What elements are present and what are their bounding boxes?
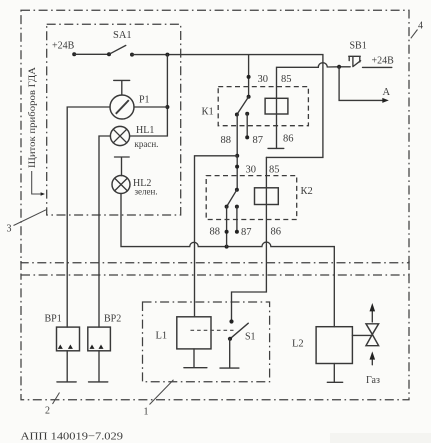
- pressure sensor BP2 label: [104, 314, 121, 325]
- enclosure frame 2 (lower dash-dot border): [21, 275, 409, 400]
- +24V label (left): [52, 41, 75, 52]
- label SB1: [350, 41, 367, 52]
- svg-text:86: 86: [283, 134, 294, 145]
- label K2: [301, 186, 313, 197]
- svg-text:ВР2: ВР2: [104, 314, 121, 325]
- pin label 87 (K1): [253, 135, 264, 146]
- L2 chassis: [327, 364, 342, 383]
- wire K2 terminal 30 feed: [236, 156, 238, 190]
- callout line for 1: [150, 380, 174, 405]
- svg-text:87: 87: [241, 227, 252, 238]
- node K2 pin 88: [225, 230, 229, 234]
- node +24V terminal: [72, 52, 76, 56]
- svg-text:красн.: красн.: [135, 139, 159, 149]
- switch S1: [228, 319, 248, 341]
- vertical caption "Щиток приборов ГДА": [27, 67, 38, 168]
- wire branch SA1 down to P1 and HL1: [130, 55, 167, 136]
- svg-text:ВР1: ВР1: [45, 314, 62, 325]
- svg-text:L1: L1: [156, 331, 168, 342]
- pressure sensor BP1 label: [45, 314, 62, 325]
- svg-text:L2: L2: [292, 339, 304, 350]
- label HL1: [136, 125, 154, 136]
- relay K2 contact box (dashed): [206, 176, 297, 220]
- svg-text:Щиток приборов ГДА: Щиток приборов ГДА: [27, 67, 38, 168]
- K1 86 chassis bar: [268, 147, 284, 149]
- wire HL1 left to BP2: [99, 136, 110, 327]
- label 4: [418, 21, 423, 32]
- lamp HL2 (green): [112, 176, 130, 194]
- relay K1 movable contact: [235, 95, 251, 117]
- wire +24V bus to K2 coil (via right side): [132, 55, 323, 158]
- wire K1 pin 87 (stub): [245, 112, 249, 140]
- wire L2 to valve: [352, 334, 372, 336]
- svg-text:зелен.: зелен.: [135, 187, 158, 197]
- HL2 top cap: [115, 157, 130, 176]
- node K1 pin 30: [247, 75, 251, 79]
- pressure sensor BP2: [88, 327, 111, 351]
- svg-text:3: 3: [7, 224, 12, 235]
- wire K1 coil 85 up to SB1 row: [277, 63, 351, 149]
- label L1: [156, 331, 168, 342]
- node K1-88 / K2-30 junction: [235, 154, 239, 158]
- switch SA1: [107, 45, 134, 56]
- node P1 junction: [165, 105, 169, 109]
- svg-text:К2: К2: [301, 186, 313, 197]
- +24V label (right): [372, 56, 395, 67]
- relay K2 movable contact: [225, 188, 239, 209]
- svg-text:АПП 140019−7.029: АПП 140019−7.029: [21, 431, 124, 443]
- svg-text:+24В: +24В: [52, 41, 75, 52]
- node SA1/P1 branch junction: [165, 53, 169, 57]
- label Газ: [366, 375, 380, 386]
- solenoid L1: [177, 317, 211, 349]
- label зелен.: [135, 187, 158, 197]
- label S1: [245, 332, 256, 343]
- svg-text:А: А: [383, 87, 391, 98]
- svg-text:2: 2: [45, 406, 50, 417]
- wire branch to L1: [195, 156, 238, 317]
- callout line for 2: [53, 393, 60, 405]
- pin label 88 (K2): [210, 227, 221, 238]
- instrument panel box 3 (dash-dot): [47, 24, 181, 215]
- mechanical link L1-S1 (dashed): [191, 329, 234, 331]
- svg-text:1: 1: [144, 407, 149, 418]
- callout line for 4: [411, 30, 418, 39]
- svg-text:88: 88: [221, 135, 232, 146]
- svg-text:30: 30: [258, 74, 269, 85]
- svg-text:88: 88: [210, 227, 221, 238]
- svg-text:30: 30: [246, 165, 257, 176]
- push button SB1: [349, 56, 361, 66]
- gas inlet arrow (up): [370, 351, 376, 364]
- svg-text:87: 87: [253, 135, 264, 146]
- meter P1: [110, 95, 134, 119]
- label HL2: [133, 178, 151, 189]
- pressure sensor BP1: [57, 327, 80, 351]
- pin label 88 (K1): [221, 135, 232, 146]
- node SB1 junction: [337, 65, 341, 69]
- BP2 chassis: [89, 351, 108, 382]
- svg-text:4: 4: [418, 21, 423, 32]
- label 3: [7, 224, 12, 235]
- pin label 30 (K2): [246, 165, 257, 176]
- svg-text:К1: К1: [202, 107, 214, 118]
- unit box 1 (dash-dot, L1/S1): [143, 302, 270, 382]
- lamp HL1 (red): [110, 126, 129, 145]
- label SA1: [113, 30, 132, 41]
- +24V supply line (right): [363, 66, 392, 68]
- coil K2: [255, 188, 279, 205]
- enclosure frame 4 (upper dash-dot border): [21, 10, 409, 262]
- callout line for 3: [14, 210, 47, 226]
- label L2: [292, 339, 304, 350]
- node K2-88 junction on bus: [225, 245, 229, 249]
- wire K2 pin 88 down to bus: [226, 207, 228, 247]
- pin label 85 (K1): [281, 74, 292, 85]
- wire +24V to SA1: [74, 53, 109, 55]
- svg-text:SB1: SB1: [350, 41, 367, 52]
- S1 chassis: [220, 339, 239, 368]
- L1 chassis: [184, 349, 207, 368]
- label P1: [139, 95, 150, 106]
- border connector segments between frames: [21, 261, 409, 276]
- pin label 30 (K1): [258, 74, 269, 85]
- wire K1 pin 88: [236, 115, 238, 156]
- wire P1 right: [134, 106, 167, 108]
- label A: [383, 87, 391, 98]
- pin label 86 (K1): [283, 134, 294, 145]
- pin label 85 (K2): [269, 165, 280, 176]
- svg-text:86: 86: [271, 227, 282, 238]
- caption pointer arrow: [32, 171, 45, 196]
- node K2 pin 30: [235, 165, 239, 169]
- wire K2 coil 86 down to S1: [232, 157, 267, 321]
- title АПП 140019-7.029: [21, 431, 124, 443]
- gas outlet arrow (up): [370, 303, 376, 322]
- svg-text:Р1: Р1: [139, 95, 150, 106]
- gas valve: [366, 324, 379, 346]
- svg-text:HL1: HL1: [136, 125, 154, 136]
- svg-text:85: 85: [281, 74, 292, 85]
- coil K1: [265, 98, 288, 114]
- BP1 chassis: [57, 351, 76, 382]
- pin label 87 (K2): [241, 227, 252, 238]
- wire HL2 down and bus to L2 (with hops): [121, 194, 334, 327]
- relay K1 contact box (dashed): [218, 87, 308, 126]
- wire to output A with arrow: [339, 67, 389, 103]
- wire K1 terminal 30 feed: [248, 55, 250, 97]
- label 2: [45, 406, 50, 417]
- label 1: [144, 407, 149, 418]
- label K1: [202, 107, 214, 118]
- svg-text:S1: S1: [245, 332, 256, 343]
- label красн.: [135, 139, 159, 149]
- svg-text:Газ: Газ: [366, 375, 380, 386]
- svg-text:SA1: SA1: [113, 30, 132, 41]
- solenoid L2: [316, 327, 352, 364]
- wire K2 pin 87 (stub): [235, 205, 239, 234]
- svg-text:85: 85: [269, 165, 280, 176]
- svg-text:+24В: +24В: [372, 56, 395, 67]
- pin label 86 (K2): [271, 227, 282, 238]
- wire P1 left to BP1: [67, 107, 110, 327]
- P1 top cap: [114, 80, 130, 95]
